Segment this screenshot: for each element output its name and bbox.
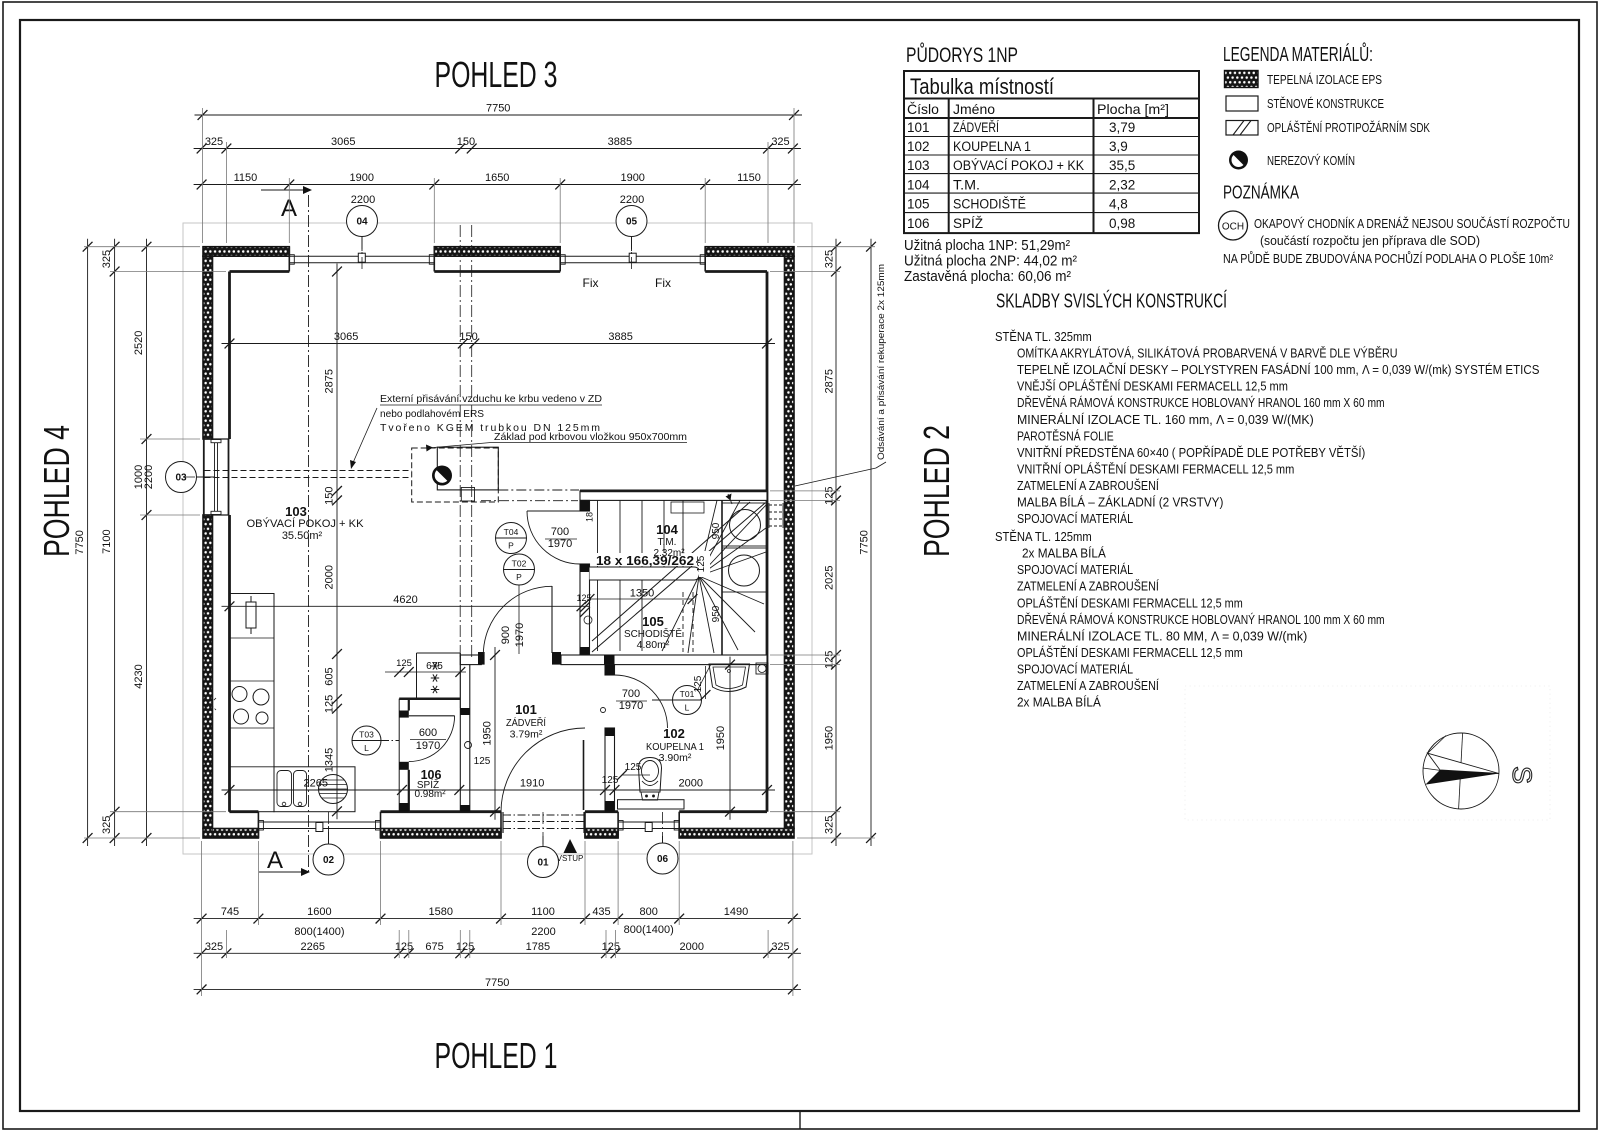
svg-text:3065: 3065 <box>331 136 355 148</box>
svg-text:7750: 7750 <box>859 530 871 554</box>
svg-text:125: 125 <box>824 651 836 669</box>
svg-text:LEGENDA MATERIÁLŮ:: LEGENDA MATERIÁLŮ: <box>1223 42 1373 66</box>
svg-text:2x MALBA BÍLÁ: 2x MALBA BÍLÁ <box>1017 695 1101 710</box>
svg-text:325: 325 <box>205 941 223 953</box>
svg-text:OBÝVACÍ POKOJ + KK: OBÝVACÍ POKOJ + KK <box>953 158 1084 173</box>
svg-text:125: 125 <box>602 941 620 953</box>
svg-text:1900: 1900 <box>620 172 644 184</box>
svg-text:OCH: OCH <box>1222 222 1244 233</box>
svg-text:VNITŘNÍ OPLÁŠTĚNÍ DESKAMI FERM: VNITŘNÍ OPLÁŠTĚNÍ DESKAMI FERMACELL 12,5… <box>1017 461 1294 476</box>
svg-text:SPOJOVACÍ MATERIÁL: SPOJOVACÍ MATERIÁL <box>1017 511 1133 526</box>
svg-text:OMÍTKA AKRYLÁTOVÁ, SILIKÁTOVÁ: OMÍTKA AKRYLÁTOVÁ, SILIKÁTOVÁ PROBARVENÁ… <box>1017 346 1398 361</box>
svg-text:102: 102 <box>663 726 685 741</box>
svg-text:4230: 4230 <box>133 664 145 688</box>
svg-text:325: 325 <box>101 816 113 834</box>
svg-text:101: 101 <box>907 120 930 135</box>
svg-text:2265: 2265 <box>301 941 325 953</box>
svg-text:600: 600 <box>419 727 437 739</box>
svg-text:2265: 2265 <box>304 778 328 790</box>
svg-text:1970: 1970 <box>548 538 572 550</box>
svg-text:1910: 1910 <box>520 778 544 790</box>
svg-text:125: 125 <box>625 762 642 773</box>
svg-text:1345: 1345 <box>324 748 336 772</box>
svg-text:OKAPOVÝ CHODNÍK A DRENÁŽ NEJSO: OKAPOVÝ CHODNÍK A DRENÁŽ NEJSOU SOUČÁSTÍ… <box>1254 216 1570 231</box>
svg-text:102: 102 <box>907 139 930 154</box>
svg-text:150: 150 <box>323 486 335 504</box>
svg-text:325: 325 <box>771 941 789 953</box>
svg-text:675: 675 <box>425 941 443 953</box>
svg-text:3,79: 3,79 <box>1109 120 1135 135</box>
svg-text:04: 04 <box>356 217 368 228</box>
svg-text:2,32: 2,32 <box>1109 177 1135 192</box>
svg-text:3.79m²: 3.79m² <box>510 729 543 741</box>
svg-text:125: 125 <box>576 593 591 603</box>
svg-text:SCHODIŠTĚ: SCHODIŠTĚ <box>953 197 1026 212</box>
svg-text:7100: 7100 <box>101 529 113 553</box>
svg-text:700: 700 <box>551 526 569 538</box>
svg-text:L: L <box>364 743 369 753</box>
svg-text:ZATMELENÍ A ZABROUŠENÍ: ZATMELENÍ A ZABROUŠENÍ <box>1017 478 1159 493</box>
svg-text:Fix: Fix <box>655 276 671 290</box>
svg-text:1650: 1650 <box>485 172 509 184</box>
svg-text:POHLED 2: POHLED 2 <box>916 425 957 557</box>
svg-text:104: 104 <box>907 177 930 192</box>
svg-text:01: 01 <box>537 858 549 869</box>
svg-text:125: 125 <box>474 756 491 767</box>
svg-text:900: 900 <box>500 626 512 644</box>
svg-text:Tabulka místností: Tabulka místností <box>910 74 1054 99</box>
svg-text:SPOJOVACÍ MATERIÁL: SPOJOVACÍ MATERIÁL <box>1017 662 1133 677</box>
svg-text:106: 106 <box>907 216 930 231</box>
svg-text:NEREZOVÝ KOMÍN: NEREZOVÝ KOMÍN <box>1267 153 1355 168</box>
svg-text:2000: 2000 <box>679 778 703 790</box>
svg-text:VNĚJŠÍ OPLÁŠTĚNÍ DESKAMI FERMA: VNĚJŠÍ OPLÁŠTĚNÍ DESKAMI FERMACELL 12,5 … <box>1017 379 1288 394</box>
svg-text:1970: 1970 <box>514 623 526 647</box>
svg-text:125: 125 <box>696 555 707 572</box>
svg-text:125: 125 <box>602 775 619 786</box>
svg-text:2875: 2875 <box>824 369 836 393</box>
svg-text:150: 150 <box>459 331 477 343</box>
svg-text:POHLED 4: POHLED 4 <box>36 425 77 557</box>
svg-text:1150: 1150 <box>234 172 258 184</box>
svg-text:1900: 1900 <box>350 172 374 184</box>
svg-text:NA PŮDĚ BUDE ZBUDOVÁNA POCHŮZÍ: NA PŮDĚ BUDE ZBUDOVÁNA POCHŮZÍ PODLAHA O… <box>1223 251 1554 266</box>
svg-text:35.50m²: 35.50m² <box>282 530 323 542</box>
svg-text:4,8: 4,8 <box>1109 197 1128 212</box>
svg-text:MINERÁLNÍ IZOLACE TL. 80 MM, Λ: MINERÁLNÍ IZOLACE TL. 80 MM, Λ = 0,039 W… <box>1017 628 1307 643</box>
svg-text:4620: 4620 <box>393 594 417 606</box>
svg-text:3885: 3885 <box>608 331 632 343</box>
svg-text:OPLÁŠTĚNÍ DESKAMI FERMACELL 12: OPLÁŠTĚNÍ DESKAMI FERMACELL 12,5 mm <box>1017 645 1243 660</box>
svg-text:1950: 1950 <box>482 721 494 745</box>
svg-text:(součástí rozpočtu jen příprav: (součástí rozpočtu jen příprava dle SOD) <box>1260 233 1480 248</box>
svg-text:2200: 2200 <box>143 465 155 489</box>
svg-text:2200: 2200 <box>351 194 375 206</box>
svg-text:7750: 7750 <box>485 977 509 989</box>
svg-text:Odsávání a přisávání rekuperac: Odsávání a přisávání rekuperace 2x 125mm <box>876 264 887 460</box>
svg-text:nebo podlahovém ERS: nebo podlahovém ERS <box>380 408 484 420</box>
svg-text:325: 325 <box>824 816 836 834</box>
svg-text:PŮDORYS 1NP: PŮDORYS 1NP <box>906 43 1018 67</box>
svg-text:1100: 1100 <box>531 906 555 918</box>
svg-text:800(1400): 800(1400) <box>624 924 674 936</box>
svg-text:Externí přisávání vzduchu ke k: Externí přisávání vzduchu ke krbu vedeno… <box>380 393 602 405</box>
svg-text:700: 700 <box>622 688 640 700</box>
svg-text:STĚNOVÉ KONSTRUKCE: STĚNOVÉ KONSTRUKCE <box>1267 96 1384 111</box>
svg-text:125: 125 <box>395 941 413 953</box>
svg-text:1490: 1490 <box>724 906 748 918</box>
svg-text:A: A <box>267 847 283 874</box>
svg-text:745: 745 <box>221 906 239 918</box>
svg-text:1350: 1350 <box>630 588 654 600</box>
svg-text:T03: T03 <box>359 730 374 740</box>
svg-text:125: 125 <box>324 695 336 713</box>
svg-text:P: P <box>516 572 522 582</box>
svg-text:SKLADBY SVISLÝCH KONSTRUKCÍ: SKLADBY SVISLÝCH KONSTRUKCÍ <box>996 290 1227 313</box>
svg-text:Užitná plocha 2NP: 44,02 m²: Užitná plocha 2NP: 44,02 m² <box>904 254 1077 270</box>
svg-text:2.32m²: 2.32m² <box>653 548 685 559</box>
svg-text:P: P <box>508 541 514 551</box>
svg-text:POZNÁMKA: POZNÁMKA <box>1223 182 1299 203</box>
svg-text:Základ pod krbovou vložkou 950: Základ pod krbovou vložkou 950x700mm <box>494 431 687 443</box>
svg-text:950: 950 <box>711 522 722 539</box>
svg-text:Užitná plocha 1NP: 51,29m²: Užitná plocha 1NP: 51,29m² <box>904 238 1070 254</box>
svg-text:Zastavěná plocha: 60,06 m²: Zastavěná plocha: 60,06 m² <box>904 269 1071 285</box>
svg-text:Číslo: Číslo <box>907 101 939 117</box>
svg-text:VSTUP: VSTUP <box>557 854 584 863</box>
svg-text:1785: 1785 <box>526 941 550 953</box>
svg-text:325: 325 <box>771 136 789 148</box>
svg-text:02: 02 <box>323 855 335 866</box>
svg-text:2200: 2200 <box>531 926 555 938</box>
svg-text:3,9: 3,9 <box>1109 139 1128 154</box>
svg-text:7750: 7750 <box>486 103 510 115</box>
svg-text:T.M.: T.M. <box>658 537 677 548</box>
svg-text:S: S <box>1507 766 1537 784</box>
svg-text:ZÁDVEŘÍ: ZÁDVEŘÍ <box>506 716 546 729</box>
svg-text:SPOJOVACÍ MATERIÁL: SPOJOVACÍ MATERIÁL <box>1017 562 1133 577</box>
svg-text:T.M.: T.M. <box>953 177 980 192</box>
svg-text:950: 950 <box>711 605 722 622</box>
svg-text:105: 105 <box>907 197 930 212</box>
svg-text:OPLÁŠTĚNÍ DESKAMI FERMACELL 12: OPLÁŠTĚNÍ DESKAMI FERMACELL 12,5 mm <box>1017 595 1243 610</box>
svg-text:605: 605 <box>324 667 336 685</box>
svg-text:T02: T02 <box>512 559 527 569</box>
svg-text:125: 125 <box>396 658 412 669</box>
svg-text:POHLED 3: POHLED 3 <box>435 54 558 95</box>
svg-text:2x MALBA BÍLÁ: 2x MALBA BÍLÁ <box>1022 546 1106 561</box>
svg-text:OPLÁŠTĚNÍ PROTIPOŽÁRNÍM SDK: OPLÁŠTĚNÍ PROTIPOŽÁRNÍM SDK <box>1267 120 1430 135</box>
svg-text:1950: 1950 <box>824 726 836 750</box>
svg-text:DŘEVĚNÁ RÁMOVÁ KONSTRUKCE HOBL: DŘEVĚNÁ RÁMOVÁ KONSTRUKCE HOBLOVANÝ HRAN… <box>1017 395 1385 410</box>
svg-text:325: 325 <box>824 250 836 268</box>
svg-text:STĚNA TL. 125mm: STĚNA TL. 125mm <box>995 529 1092 544</box>
svg-text:2520: 2520 <box>133 331 145 355</box>
svg-text:Jméno: Jméno <box>953 101 995 117</box>
svg-text:125: 125 <box>693 675 704 692</box>
svg-text:18: 18 <box>585 512 595 522</box>
svg-text:3.90m²: 3.90m² <box>659 752 692 764</box>
svg-text:103: 103 <box>907 158 930 173</box>
svg-text:800(1400): 800(1400) <box>294 926 344 938</box>
svg-text:435: 435 <box>592 906 610 918</box>
svg-text:1580: 1580 <box>429 906 453 918</box>
svg-text:800: 800 <box>640 906 658 918</box>
svg-text:35,5: 35,5 <box>1109 158 1135 173</box>
svg-text:4.80m²: 4.80m² <box>637 639 670 651</box>
svg-text:06: 06 <box>657 854 669 865</box>
svg-text:1970: 1970 <box>416 740 440 752</box>
svg-text:3885: 3885 <box>608 136 632 148</box>
svg-text:3065: 3065 <box>334 331 358 343</box>
svg-text:1150: 1150 <box>737 172 761 184</box>
svg-text:Fix: Fix <box>583 276 599 290</box>
svg-text:150: 150 <box>457 136 475 148</box>
svg-text:2000: 2000 <box>324 565 336 589</box>
svg-text:ZATMELENÍ A ZABROUŠENÍ: ZATMELENÍ A ZABROUŠENÍ <box>1017 579 1159 594</box>
svg-text:05: 05 <box>626 217 638 228</box>
svg-text:VNITŘNÍ PŘEDSTĚNA 60×40 ( POPŘ: VNITŘNÍ PŘEDSTĚNA 60×40 ( POPŘÍPADĚ DLE … <box>1017 445 1365 460</box>
svg-text:Plocha [m²]: Plocha [m²] <box>1097 101 1169 117</box>
svg-text:103: 103 <box>285 504 307 519</box>
svg-text:03: 03 <box>175 473 187 484</box>
svg-text:325: 325 <box>205 136 223 148</box>
svg-text:T04: T04 <box>504 527 519 537</box>
svg-text:SPÍŽ: SPÍŽ <box>953 216 983 231</box>
svg-text:101: 101 <box>515 702 537 717</box>
svg-text:2000: 2000 <box>680 941 704 953</box>
svg-text:104: 104 <box>656 522 678 537</box>
svg-text:KOUPELNA 1: KOUPELNA 1 <box>953 139 1031 154</box>
svg-text:0.98m²: 0.98m² <box>414 789 446 800</box>
svg-text:125: 125 <box>823 486 835 504</box>
svg-text:L: L <box>685 703 690 713</box>
svg-text:STĚNA TL. 325mm: STĚNA TL. 325mm <box>995 329 1092 344</box>
svg-text:1600: 1600 <box>307 906 331 918</box>
svg-text:2200: 2200 <box>620 194 644 206</box>
svg-text:OBÝVACÍ POKOJ + KK: OBÝVACÍ POKOJ + KK <box>247 517 365 530</box>
svg-text:MINERÁLNÍ IZOLACE TL. 160 mm,: MINERÁLNÍ IZOLACE TL. 160 mm, Λ = 0,039 … <box>1017 412 1314 427</box>
svg-text:DŘEVĚNÁ RÁMOVÁ KONSTRUKCE HOBL: DŘEVĚNÁ RÁMOVÁ KONSTRUKCE HOBLOVANÝ HRAN… <box>1017 612 1385 627</box>
svg-text:MALBA BÍLÁ – ZÁKLADNÍ (2 VRSTV: MALBA BÍLÁ – ZÁKLADNÍ (2 VRSTVY) <box>1017 495 1223 510</box>
svg-text:PAROTĚSNÁ FOLIE: PAROTĚSNÁ FOLIE <box>1017 428 1114 443</box>
svg-text:325: 325 <box>101 250 113 268</box>
svg-text:125: 125 <box>456 941 474 953</box>
svg-text:TEPELNĚ IZOLAČNÍ DESKY – POLYS: TEPELNĚ IZOLAČNÍ DESKY – POLYSTYREN FASÁ… <box>1017 362 1540 377</box>
svg-text:POHLED 1: POHLED 1 <box>435 1035 558 1076</box>
svg-text:TEPELNÁ IZOLACE EPS: TEPELNÁ IZOLACE EPS <box>1267 72 1382 87</box>
svg-text:ZÁDVEŘÍ: ZÁDVEŘÍ <box>953 120 999 135</box>
svg-text:2875: 2875 <box>324 369 336 393</box>
svg-text:105: 105 <box>642 614 664 629</box>
svg-text:0,98: 0,98 <box>1109 216 1135 231</box>
svg-text:2025: 2025 <box>824 565 836 589</box>
svg-text:ZATMELENÍ A ZABROUŠENÍ: ZATMELENÍ A ZABROUŠENÍ <box>1017 678 1159 693</box>
svg-text:1950: 1950 <box>715 726 727 750</box>
svg-text:1970: 1970 <box>619 700 643 712</box>
